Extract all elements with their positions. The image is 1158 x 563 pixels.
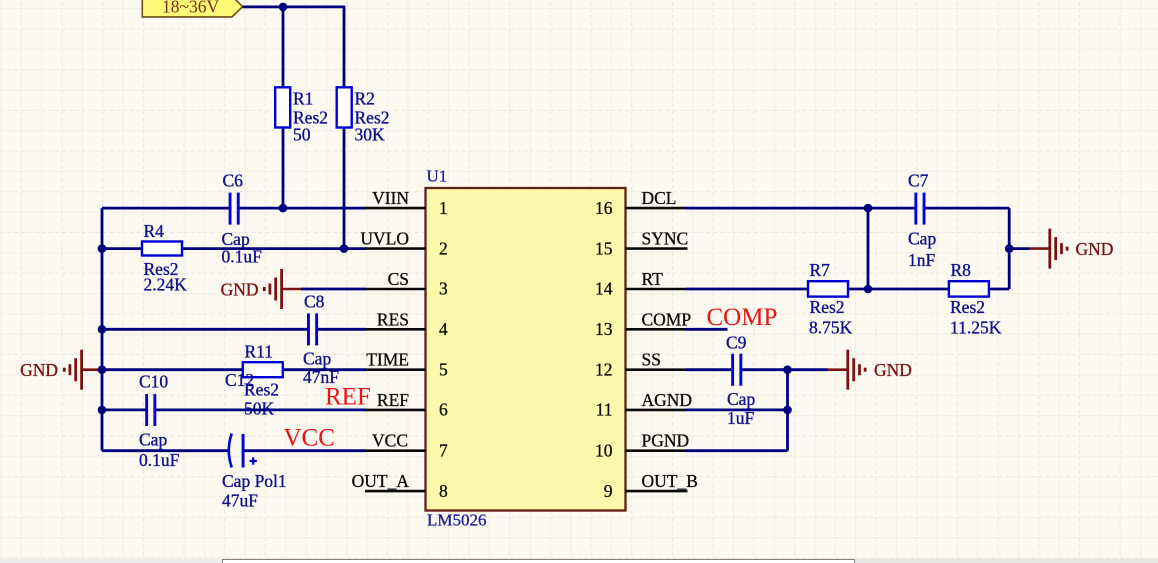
wire GND to pin 3 (CS) [301, 288, 366, 291]
svg-text:C7: C7 [908, 170, 929, 190]
svg-text:RES: RES [377, 309, 409, 329]
svg-text:18~36V: 18~36V [162, 0, 219, 17]
wire COMP stub [686, 328, 728, 331]
svg-text:Res2: Res2 [950, 297, 985, 317]
wire PGND row [686, 449, 788, 452]
U1 pin 6 REF [365, 390, 448, 420]
wire Cap Pol1 to pin 7 [245, 449, 367, 452]
svg-text:Cap Pol1: Cap Pol1 [222, 471, 287, 491]
junction at 18~36V rail and R1 [279, 3, 288, 12]
svg-text:GND: GND [20, 360, 58, 380]
ground symbol top right [1030, 229, 1114, 269]
U1 pin 14 RT [595, 269, 686, 299]
svg-text:PGND: PGND [642, 431, 690, 451]
polarized capacitor Cap Pol1 47uF [222, 434, 287, 511]
svg-text:11: 11 [596, 400, 613, 420]
junction rail / RES [98, 325, 107, 334]
svg-text:R1: R1 [293, 88, 313, 108]
power port 18~36V [142, 0, 242, 17]
wire R2 bottom lead to UVLO [343, 125, 346, 249]
junction DCL / center vertical [864, 204, 873, 213]
svg-text:16: 16 [595, 198, 613, 218]
junction rail / TIME [98, 365, 107, 374]
wire AGND row [686, 408, 788, 411]
svg-text:4: 4 [439, 319, 448, 339]
wire R2 top lead [343, 7, 346, 89]
svg-text:C10: C10 [139, 371, 168, 391]
wire vertical SS-PGND [786, 370, 789, 451]
svg-text:9: 9 [604, 481, 613, 501]
svg-text:11.25K: 11.25K [950, 317, 1002, 337]
wire RES row (rail to C8) [102, 328, 308, 331]
junction rail / REF [98, 406, 107, 415]
resistor R11 [225, 341, 283, 418]
capacitor C9 [726, 332, 755, 428]
junction VIIN / R1 [279, 204, 288, 213]
svg-text:15: 15 [595, 238, 613, 258]
U1 pin 7 VCC [365, 431, 448, 461]
capacitor C8 [303, 292, 339, 387]
U1 pin 4 RES [365, 309, 448, 339]
resistor R4 [142, 221, 187, 294]
svg-text:C6: C6 [223, 170, 244, 190]
wire VCC row (rail corner to Cap Pol1) [102, 449, 228, 452]
U1 pin 2 UVLO [360, 229, 447, 259]
wire C8 to pin 4 [318, 328, 366, 331]
svg-text:47uF: 47uF [222, 490, 258, 510]
svg-text:14: 14 [595, 279, 613, 299]
wire RT row (pin 14 to R7) [686, 288, 809, 291]
svg-text:REF: REF [377, 390, 409, 410]
svg-text:GND: GND [1076, 239, 1114, 259]
svg-text:R8: R8 [951, 260, 972, 280]
svg-text:Cap: Cap [727, 389, 755, 409]
svg-text:Res2: Res2 [244, 379, 279, 399]
svg-text:OUT_A: OUT_A [352, 471, 410, 491]
resistor R1 [275, 87, 328, 144]
wire UVLO row [102, 247, 366, 250]
svg-text:R2: R2 [355, 88, 375, 108]
wire center vertical DCL-RT [867, 208, 870, 289]
resistor R8 [949, 260, 1002, 337]
left vertical rail [101, 208, 104, 451]
U1 pin 3 CS [365, 269, 448, 299]
svg-text:13: 13 [595, 319, 613, 339]
svg-text:VCC: VCC [284, 425, 335, 452]
svg-text:VCC: VCC [372, 431, 408, 451]
U1 pin 1 VIIN [365, 188, 448, 218]
junction rail / UVLO [98, 244, 107, 253]
wire R7 to R8 [847, 288, 950, 291]
svg-text:Cap: Cap [908, 229, 936, 249]
capacitor C6 [222, 170, 263, 266]
svg-text:10: 10 [595, 440, 613, 460]
U1 pin 8 OUT_A [352, 471, 448, 501]
svg-text:1nF: 1nF [908, 250, 936, 270]
svg-text:3: 3 [439, 279, 448, 299]
U1 pin 12 SS [595, 350, 686, 380]
svg-text:Cap: Cap [303, 348, 331, 368]
junction UVLO / R2 [340, 244, 349, 253]
svg-text:DCL: DCL [642, 188, 677, 208]
junction RT / center vertical [864, 285, 873, 294]
svg-text:2.24K: 2.24K [144, 275, 188, 295]
ground symbol at TIME row (left) [20, 350, 102, 390]
U1 pin 10 PGND [595, 431, 689, 461]
svg-text:R4: R4 [144, 221, 165, 241]
wire R8 to right corner [988, 288, 1010, 291]
wire R1 bottom lead to VIIN [282, 125, 285, 208]
svg-text:LM5026: LM5026 [427, 510, 487, 529]
svg-text:SS: SS [642, 350, 661, 370]
U1 pin 5 TIME [365, 350, 448, 380]
U1 pin 9 OUT_B [604, 471, 698, 501]
svg-text:50K: 50K [244, 398, 275, 418]
wire C10 to pin 6 [156, 408, 366, 411]
svg-text:C9: C9 [726, 332, 747, 352]
wire REF row (rail to C10) [102, 408, 146, 411]
wire right vertical C7-R8 [1008, 208, 1011, 289]
svg-text:C8: C8 [304, 292, 325, 312]
svg-text:CS: CS [388, 269, 409, 289]
resistor R2 [337, 87, 390, 144]
wire DCL row (pin 16 to C7) [686, 207, 914, 210]
svg-text:30K: 30K [355, 125, 386, 145]
wire R1 top lead [282, 7, 285, 89]
svg-text:REF: REF [325, 383, 371, 410]
svg-text:50: 50 [293, 125, 311, 145]
U1 pin 15 SYNC [595, 229, 688, 259]
svg-text:GND: GND [221, 279, 259, 299]
svg-text:COMP: COMP [707, 304, 778, 331]
svg-text:COMP: COMP [642, 309, 692, 329]
wire C6 to pin 1 [240, 207, 366, 210]
ground symbol at CS pin [221, 269, 303, 309]
svg-text:R7: R7 [810, 260, 831, 280]
svg-text:AGND: AGND [642, 390, 693, 410]
svg-text:8.75K: 8.75K [809, 317, 853, 337]
svg-text:U1: U1 [427, 167, 448, 186]
ground symbol at SS row [828, 350, 912, 390]
svg-text:VIIN: VIIN [372, 188, 409, 208]
U1 pin 16 DCL [595, 188, 686, 218]
svg-text:0.1uF: 0.1uF [139, 450, 180, 470]
junction AGND / vertical [783, 406, 792, 415]
wire TIME row [102, 368, 366, 371]
wire from 18~36V tip to R2 top [243, 6, 346, 9]
bottom panel strip [0, 559, 1158, 563]
svg-text:5: 5 [439, 359, 448, 379]
junction GND tap [1005, 244, 1014, 253]
svg-text:OUT_B: OUT_B [642, 471, 698, 491]
svg-text:UVLO: UVLO [360, 229, 409, 249]
svg-text:1: 1 [439, 198, 448, 218]
U1 pin 13 COMP [595, 309, 691, 339]
wire C9 to junction and GND [742, 368, 828, 371]
IC U1 LM5026 body [426, 167, 626, 530]
svg-text:R11: R11 [245, 341, 274, 361]
svg-text:SYNC: SYNC [642, 229, 689, 249]
svg-text:Res2: Res2 [810, 297, 845, 317]
svg-text:Cap: Cap [139, 430, 167, 450]
capacitor C7 [908, 170, 936, 270]
junction SS / vertical [783, 365, 792, 374]
svg-text:2: 2 [439, 238, 448, 258]
wire SS row (pin 12 to C9) [686, 368, 731, 371]
svg-text:TIME: TIME [366, 350, 409, 370]
svg-text:7: 7 [439, 440, 448, 460]
svg-text:6: 6 [439, 400, 448, 420]
svg-text:8: 8 [439, 481, 448, 501]
svg-text:RT: RT [642, 269, 664, 289]
resistor R7 [808, 260, 853, 337]
wire junction to GND (top right) [1009, 247, 1030, 250]
wire VIIN row (left rail to C6) [102, 207, 229, 210]
wire C7 to right corner [925, 207, 1009, 210]
capacitor C10 [139, 371, 180, 470]
svg-text:GND: GND [874, 360, 912, 380]
U1 pin 11 AGND [596, 390, 692, 420]
svg-text:12: 12 [595, 359, 613, 379]
